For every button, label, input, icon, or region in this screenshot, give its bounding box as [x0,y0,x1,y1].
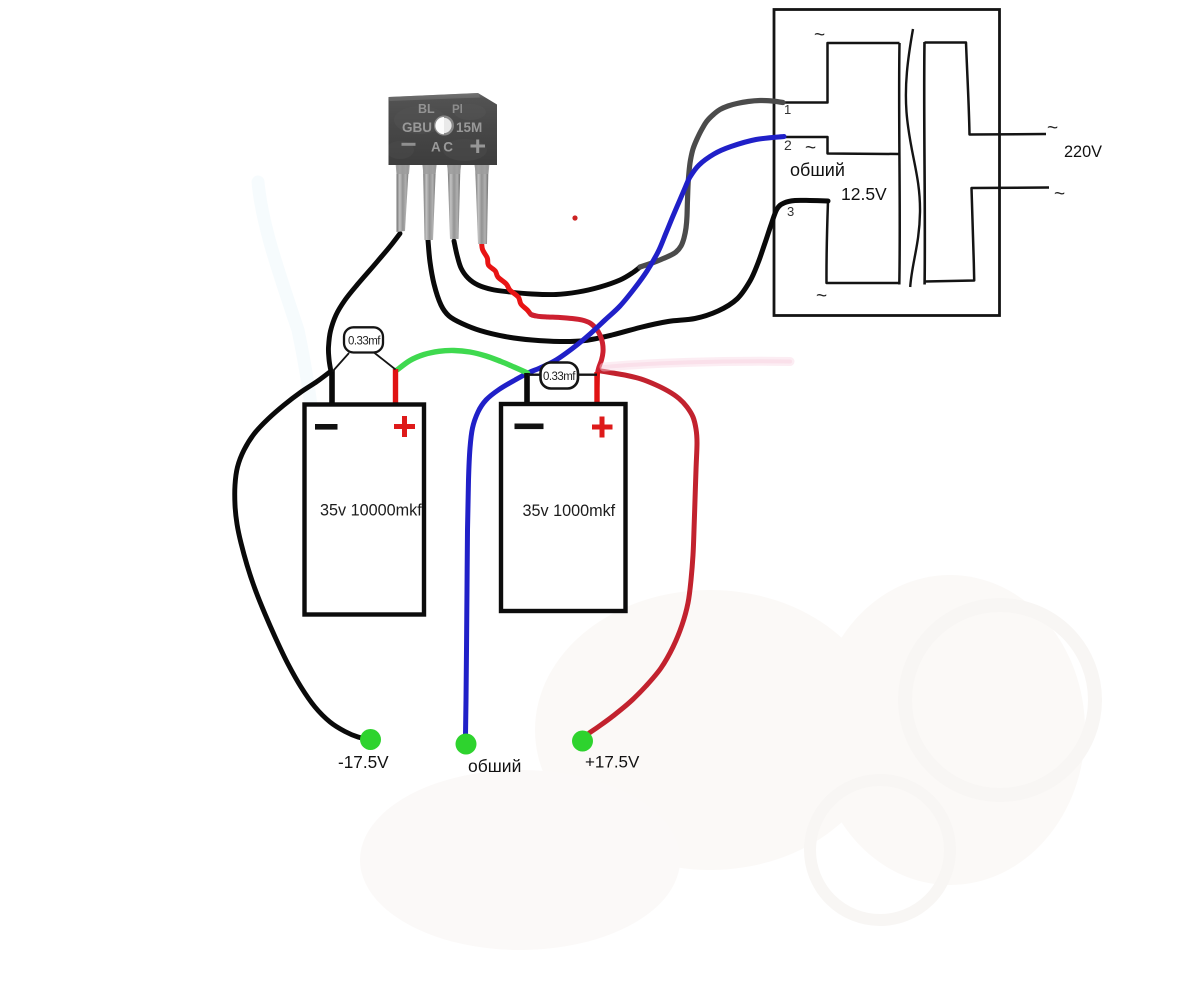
svg-text:0.33mf: 0.33mf [348,336,381,348]
transformer core line [906,29,920,287]
C1 minus polarity bar [315,424,338,430]
bridge rectifier BR1 leg 1 [397,163,410,232]
svg-text:+17.5V: +17.5V [585,753,640,772]
C2 plus polarity mark [592,417,613,438]
wire W9 blue transformer pin 2 to C2 minus node and common terminal [466,137,785,736]
bridge BR1 leg 3 [448,163,461,239]
wire W4 red bridge leg4 to C2 plus stub [482,235,536,316]
svg-text:обший: обший [468,756,521,776]
svg-text:220V: 220V [1064,143,1102,161]
svg-text:-17.5V: -17.5V [338,752,389,772]
C2 minus polarity bar [515,424,544,430]
wire W3 black bridge leg2 to transformer pin 3 [428,200,828,341]
BR1 mounting hole [435,117,453,135]
svg-text:2: 2 [784,137,792,153]
wire W1 gray junction to transformer pin 1 [640,100,783,267]
svg-text:~: ~ [1047,118,1058,139]
node A black terminal stub of C1 [329,370,335,407]
pink highlighter streak artifact [604,361,790,367]
svg-text:~: ~ [814,25,825,46]
svg-text:0.33mf: 0.33mf [543,371,576,383]
wire W2 black bridge leg3 to gray junction [454,241,640,295]
svg-text:Ρl: Ρl [452,104,463,116]
svg-text:~: ~ [1054,184,1065,205]
svg-text:~: ~ [805,138,816,159]
capacitor C1 35v 10000mkf body [305,405,425,615]
svg-text:BL: BL [418,102,435,116]
capacitor C3 0.33mf leg right [374,353,396,370]
svg-text:GBU: GBU [402,120,432,135]
capacitor C3 0.33mf leg left [333,353,350,372]
svg-text:12.5V: 12.5V [841,184,887,204]
capacitor C2 35v 1000mkf body [501,404,626,611]
transformer T1 secondary winding bar [898,43,901,285]
svg-text:15M: 15M [456,120,482,135]
bridge BR1 leg 2 [423,163,436,240]
capacitor C3 0.33mf body label [344,327,383,352]
transformer primary bottom lead [925,188,1050,282]
svg-text:3: 3 [787,204,794,219]
wire W4 red bend down to C2 plus (crimson section) [531,315,603,389]
wire W8 green C1 plus to C2 minus node [397,350,528,373]
terminal +17.5V green dot [572,731,593,752]
BR1 plus pin marking [471,140,486,154]
stray red dot artifact [572,215,577,220]
terminal common green dot [456,734,477,755]
BR1 minus pin marking [402,143,416,146]
transformer pin 2 tap [784,137,899,154]
svg-text:AC: AC [431,140,456,155]
C1 plus polarity mark [394,416,415,437]
capacitor C4 0.33mf body label [541,363,579,389]
capacitor C4 0.33mf leg left [528,374,541,376]
svg-text:35v 1000mkf: 35v 1000mkf [523,502,616,520]
svg-text:35v 10000mkf: 35v 10000mkf [320,502,422,520]
C2 red plus terminal stub [594,372,599,406]
wire W5 red C2 plus to +17.5V terminal [583,371,697,740]
svg-text:1: 1 [784,102,791,117]
wire W6 black bridge leg1 to node A [328,234,400,370]
transformer pin 1 tap [781,43,900,103]
capacitor C4 0.33mf leg right [577,374,597,376]
transformer pin 3 tap [826,201,899,283]
C1 red plus terminal stub [393,369,398,407]
bridge rectifier BR1 body [389,93,498,165]
transformer T1 outline box [774,10,1000,316]
wire W7 black node A to -17.5V terminal [235,371,370,740]
svg-text:обший: обший [790,160,845,180]
svg-text:~: ~ [816,286,827,307]
transformer primary top lead [925,43,1047,135]
transformer primary winding bar [923,42,926,285]
bridge BR1 leg 4 [475,163,489,244]
terminal -17.5V green dot [360,729,381,750]
C2 black minus terminal stub [524,373,530,407]
